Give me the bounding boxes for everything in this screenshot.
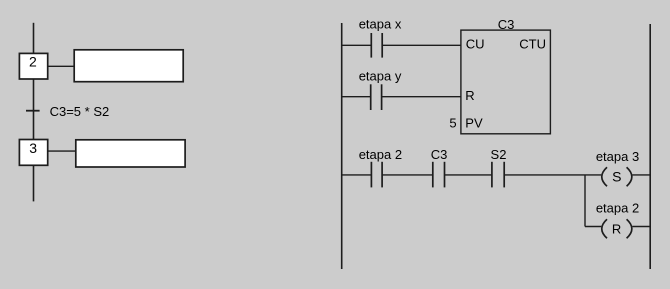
wire rung3 from left rail to contact <box>342 174 372 176</box>
svg-text:CU: CU <box>466 36 485 51</box>
svg-text:R: R <box>612 221 621 236</box>
svg-text:S: S <box>612 169 621 185</box>
wire rung3 segment to S2 contact <box>445 174 492 176</box>
svg-text:etapa y: etapa y <box>359 68 402 83</box>
contact S2 (NO) <box>492 162 504 188</box>
contact etapa x (NO) <box>371 33 382 58</box>
svg-text:2: 2 <box>29 54 37 70</box>
left power rail <box>341 23 343 269</box>
step 3 box <box>19 140 47 166</box>
transition t1 tick <box>26 110 40 112</box>
wire coil S to right rail <box>632 174 650 176</box>
contact C3 (NO) <box>433 162 445 188</box>
svg-text:C3: C3 <box>431 147 448 162</box>
action box N2 (empty) <box>76 140 185 167</box>
wire: SFC trunk between step 2 and step 3 <box>33 79 35 140</box>
wire branch to coil R <box>585 226 601 228</box>
svg-text:etapa 2: etapa 2 <box>359 147 402 162</box>
svg-text:3: 3 <box>29 140 37 156</box>
step 2 box <box>19 53 47 79</box>
svg-text:etapa 3: etapa 3 <box>596 149 639 164</box>
wire coil R to right rail <box>632 226 650 228</box>
wire rung2 from contact to counter R input <box>382 96 461 98</box>
wire: step 3 to action box <box>48 150 77 152</box>
coil R (reset) etapa 2 <box>602 219 632 238</box>
counter U1 block C3 (CTU) <box>461 30 551 134</box>
wire rung1 from contact to counter CU input <box>382 44 461 46</box>
svg-text:5: 5 <box>449 116 456 131</box>
coil S (set) etapa 3 <box>602 167 632 186</box>
svg-text:PV: PV <box>465 116 483 131</box>
wire branch vertical to coil R <box>584 175 586 227</box>
contact etapa 2 (NO) <box>371 162 382 188</box>
svg-text:etapa 2: etapa 2 <box>596 200 639 215</box>
svg-text:R: R <box>465 88 474 103</box>
action box N1 (empty) <box>74 50 183 82</box>
svg-text:C3: C3 <box>498 17 515 32</box>
svg-text:C3=5 * S2: C3=5 * S2 <box>50 104 110 119</box>
wire: SFC trunk top <box>33 23 35 54</box>
wire rung3 segment to C3 contact <box>382 174 433 176</box>
wire: step 2 to action box <box>48 65 75 67</box>
wire rung1 from left rail to contact <box>342 44 372 46</box>
svg-text:S2: S2 <box>491 147 507 162</box>
contact etapa y (NO) <box>371 84 382 110</box>
wire: SFC trunk bottom <box>33 165 35 201</box>
wire rung2 from left rail to contact <box>342 96 371 98</box>
right power rail <box>649 24 651 269</box>
svg-text:etapa x: etapa x <box>359 16 402 31</box>
wire rung3 segment to coil S <box>504 174 601 176</box>
svg-text:CTU: CTU <box>519 36 546 51</box>
